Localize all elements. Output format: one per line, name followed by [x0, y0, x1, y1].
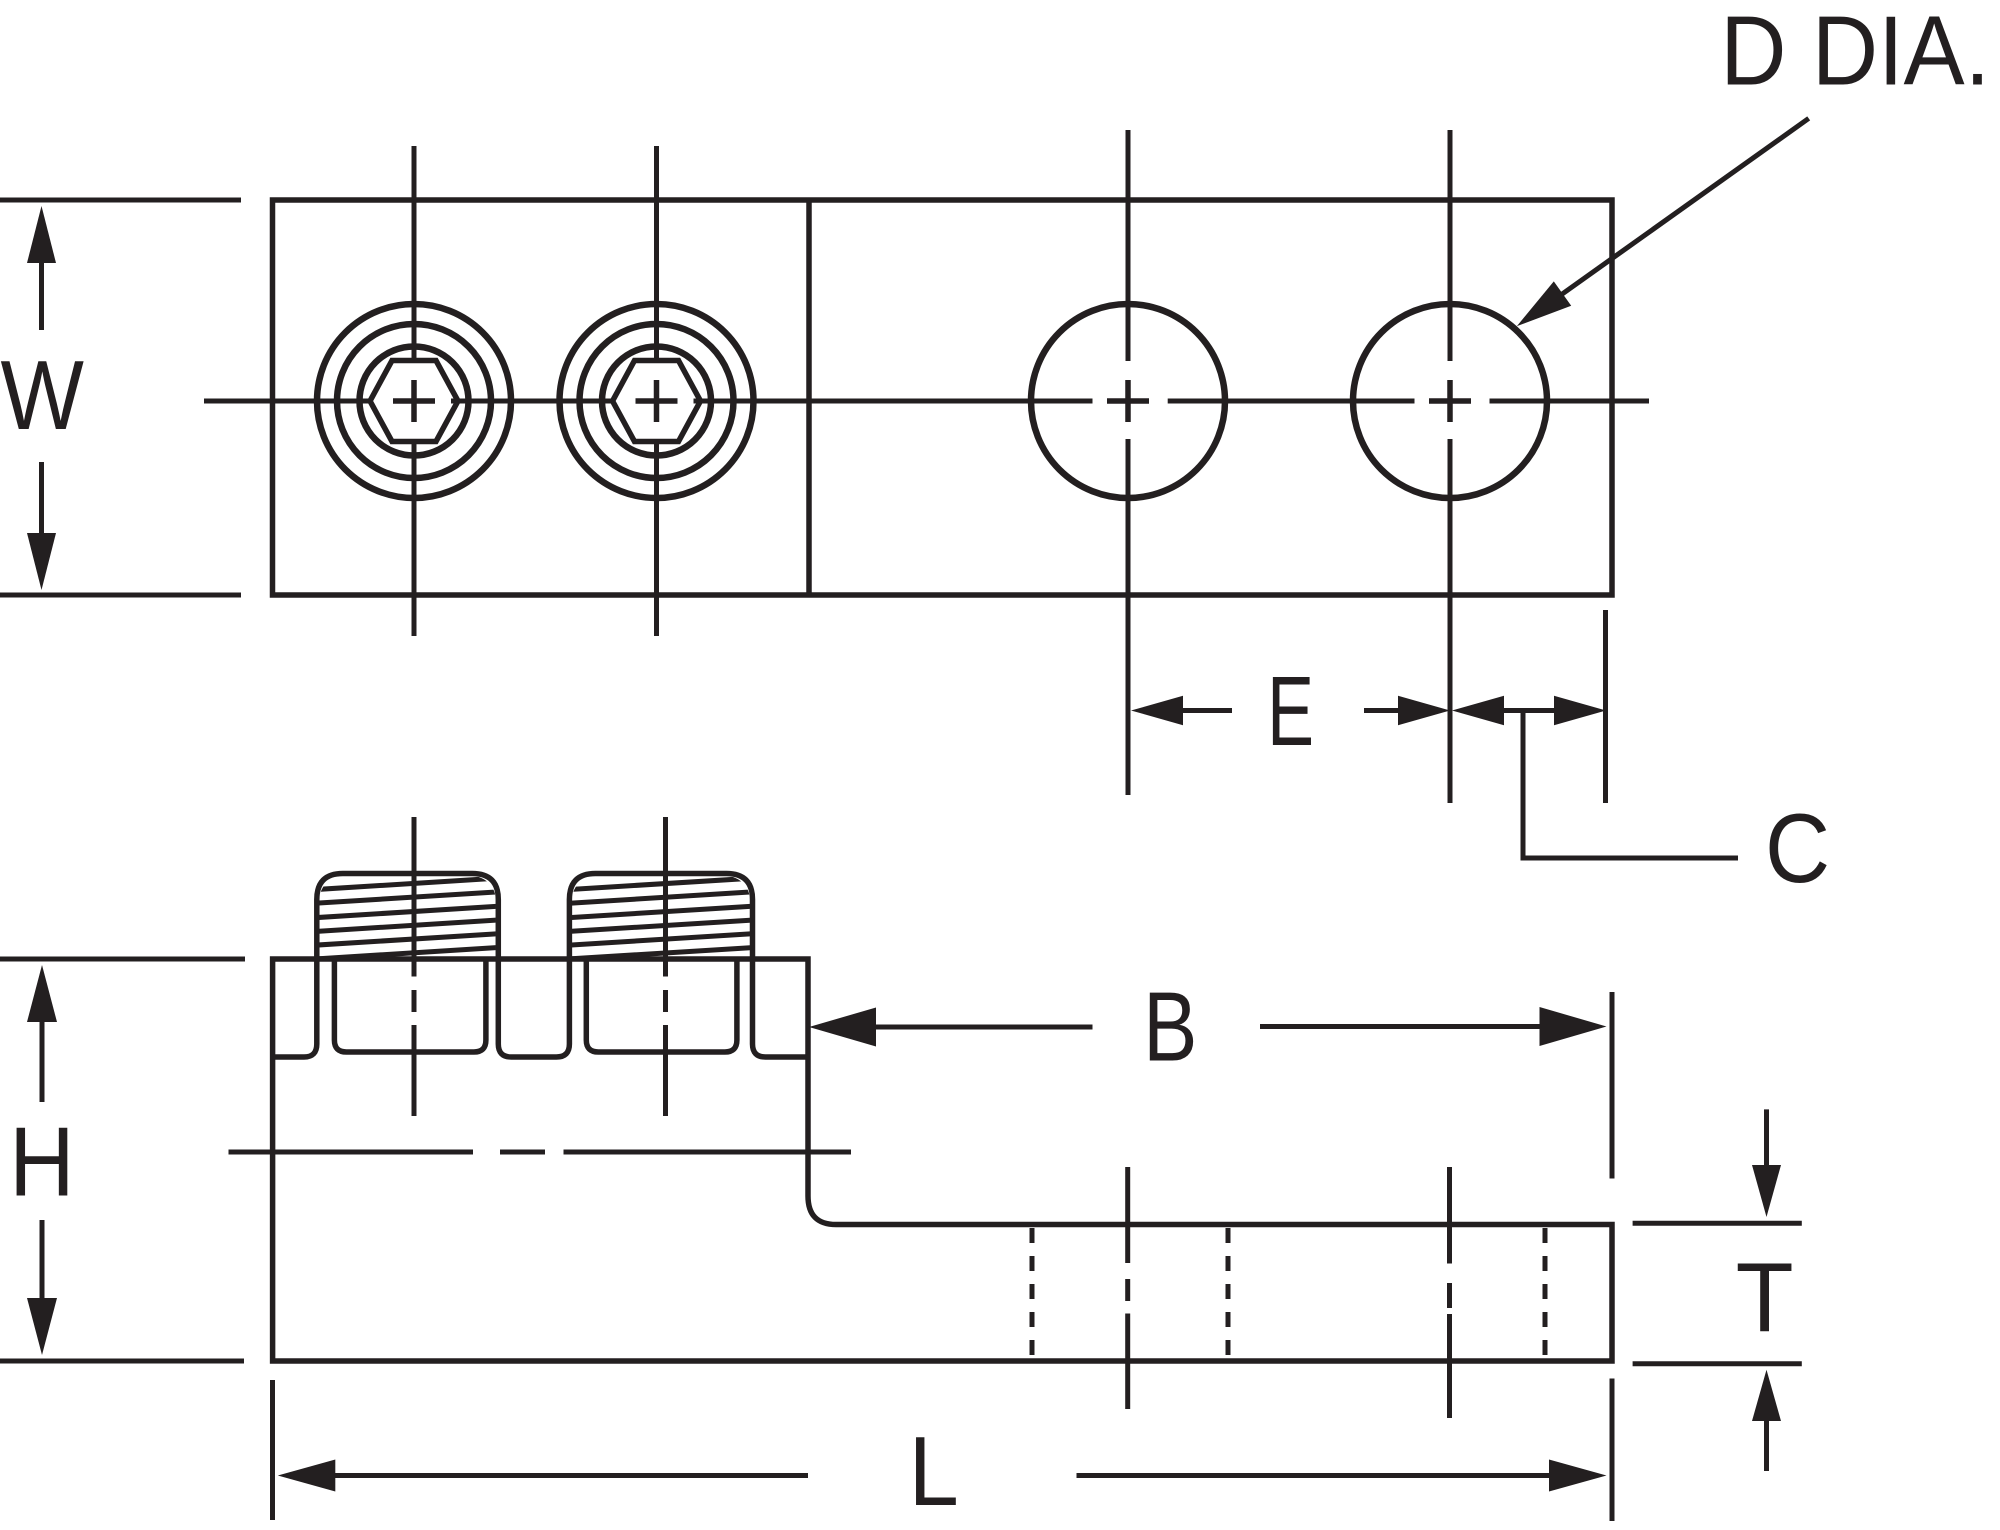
B extension line	[1610, 992, 1615, 1179]
svg-text:T: T	[1736, 1243, 1794, 1353]
screw S2 center cross	[636, 380, 678, 422]
W dimension arrow down	[27, 462, 56, 590]
svg-text:L: L	[909, 1416, 959, 1526]
H extension line top	[0, 957, 245, 962]
tongue hidden line hole3 right edge	[1226, 1228, 1231, 1358]
C leader polyline	[1523, 713, 1738, 858]
B dimension right arrow	[1260, 1007, 1607, 1046]
screw S1 inner circle	[360, 347, 469, 456]
svg-text:H: H	[9, 1106, 75, 1216]
H dimension arrow up	[27, 965, 57, 1102]
screw S2 outer circle	[560, 304, 754, 498]
screw S1 outer circle	[317, 304, 511, 498]
screw S1 middle circle	[337, 324, 491, 478]
C dimension line	[1500, 708, 1558, 713]
side view horizontal centerline	[229, 1150, 852, 1155]
E dimension left arrow	[1131, 696, 1232, 725]
screw S2 vertical centerline	[654, 146, 659, 636]
top view body outline	[273, 200, 1613, 595]
C dimension right arrow	[1554, 696, 1606, 725]
D DIA. leader line	[1558, 118, 1809, 297]
W extension line top	[0, 198, 241, 203]
B dimension left arrow	[809, 1008, 1093, 1047]
hole H3 center cross	[1107, 380, 1149, 422]
L dimension left arrow	[278, 1460, 808, 1492]
T dimension arrow down	[1752, 1109, 1781, 1217]
L extension line left	[270, 1380, 275, 1520]
hole H4 vertical centerline	[1448, 130, 1453, 803]
E/C right extension line	[1603, 610, 1608, 803]
hole H3 vertical centerline	[1126, 130, 1131, 795]
L dimension right arrow	[1077, 1460, 1607, 1492]
screw S2 hex socket	[613, 361, 701, 442]
slot floors and thread hole walls contour	[273, 874, 808, 1058]
screw S1 hex socket	[370, 361, 458, 442]
screw S2 middle circle	[580, 324, 734, 478]
T dimension arrow up	[1752, 1370, 1781, 1471]
top view horizontal centerline	[204, 399, 1649, 404]
T upper extension line	[1633, 1221, 1802, 1226]
C dimension left arrow	[1452, 696, 1504, 725]
screw R2 side centerline	[663, 817, 668, 1116]
svg-text:B: B	[1143, 972, 1197, 1082]
top view barrel/pad divider	[806, 200, 812, 595]
hole H4 circle	[1353, 304, 1547, 498]
hole H3 circle	[1031, 304, 1225, 498]
svg-text:E: E	[1267, 656, 1314, 766]
tongue hidden line hole4 right edge	[1543, 1228, 1548, 1358]
hole4 tongue centerline	[1447, 1167, 1452, 1418]
H dimension arrow down	[27, 1220, 57, 1355]
D DIA. leader arrowhead	[1517, 281, 1571, 326]
hole3 tongue centerline	[1125, 1167, 1130, 1409]
E dimension right arrow	[1364, 696, 1450, 725]
W extension line bottom	[0, 593, 241, 598]
hole H4 center cross	[1429, 380, 1471, 422]
svg-text:C: C	[1765, 793, 1830, 903]
bore hole 1	[334, 959, 486, 1052]
T lower extension line	[1633, 1361, 1802, 1366]
screw R1 side centerline	[412, 817, 417, 1116]
H extension line bottom	[0, 1359, 244, 1364]
tongue hidden line hole3 left edge	[1030, 1228, 1035, 1358]
L extension line right	[1610, 1379, 1615, 1522]
screw S2 inner circle	[602, 347, 711, 456]
svg-text:W: W	[1, 340, 85, 450]
screw S1 vertical centerline	[412, 146, 417, 636]
W dimension arrow up	[27, 206, 56, 330]
screw S1 center cross	[393, 380, 435, 422]
side view body outline	[273, 959, 1612, 1361]
bore hole 2	[586, 959, 737, 1052]
svg-text:D DIA.: D DIA.	[1720, 0, 1990, 106]
